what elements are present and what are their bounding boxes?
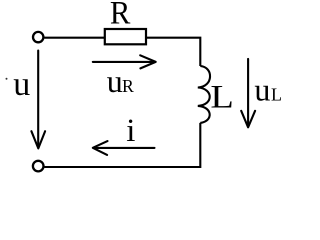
svg-text:u: u bbox=[254, 71, 270, 107]
svg-text:u: u bbox=[13, 66, 30, 103]
svg-text:u: u bbox=[107, 63, 123, 99]
svg-text:i: i bbox=[126, 113, 135, 149]
svg-text:R: R bbox=[110, 0, 130, 32]
svg-text:L: L bbox=[271, 84, 282, 104]
svg-text:R: R bbox=[122, 76, 134, 96]
svg-text:L: L bbox=[210, 79, 234, 115]
